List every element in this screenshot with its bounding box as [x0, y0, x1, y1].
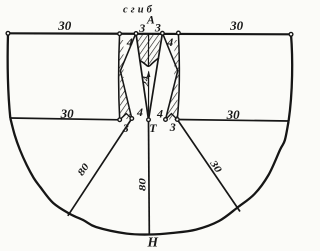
svg-text:4: 4 — [136, 105, 143, 119]
central dart hatched area — [137, 34, 160, 66]
corner circle top-right — [289, 32, 293, 36]
right waist line — [177, 120, 288, 122]
dimension arrowhead down — [147, 111, 150, 118]
dimension arrowhead up — [147, 71, 151, 78]
right diagonal line 30 — [177, 120, 240, 212]
right dart lower hatched triangle — [166, 72, 178, 120]
svg-text:24: 24 — [142, 76, 151, 88]
right side edge — [289, 34, 293, 121]
circle right dart bottom-left node — [164, 118, 168, 122]
svg-text:4: 4 — [156, 107, 163, 121]
central dart right edge — [149, 33, 163, 120]
right dart notch — [166, 114, 178, 120]
left waist line — [10, 118, 119, 120]
svg-text:30: 30 — [60, 106, 75, 121]
svg-text:4: 4 — [126, 35, 133, 49]
svg-text:3: 3 — [169, 120, 176, 134]
circle left dart top-right — [134, 32, 138, 36]
circle right dart bottom-right node — [176, 118, 180, 122]
svg-text:3: 3 — [138, 21, 145, 35]
left dart upper hatched band — [119, 40, 124, 78]
left dart notch — [120, 114, 132, 120]
top edge line — [8, 33, 291, 34]
left dart lower hatched triangle — [120, 72, 132, 120]
central dart axis line — [147, 34, 149, 67]
svg-text:30: 30 — [57, 18, 71, 33]
central dart hatch bottom V boundary — [139, 58, 159, 67]
left dart vertical edge A — [119, 34, 120, 120]
corner circle top-left — [6, 31, 10, 35]
circle left dart bottom-left — [118, 118, 122, 122]
svg-text:3: 3 — [122, 121, 129, 135]
circle left dart top-left — [118, 32, 122, 36]
circle right dart top-left — [161, 31, 165, 35]
center vertical line T-H — [148, 120, 151, 234]
circle left dart bottom-right node — [130, 117, 134, 121]
right dart inner edge B' — [163, 33, 178, 71]
svg-text:Н: Н — [147, 235, 159, 250]
svg-text:4: 4 — [166, 35, 173, 49]
right dart vertical edge A' — [177, 33, 179, 120]
svg-text:А: А — [146, 14, 155, 26]
circle point T — [147, 118, 151, 122]
left side edge — [8, 33, 11, 118]
svg-text:30: 30 — [229, 18, 244, 33]
right dart upper hatched band — [174, 40, 179, 78]
svg-text:Т: Т — [149, 121, 157, 135]
hem curve — [10, 118, 288, 235]
svg-text:3: 3 — [154, 20, 161, 34]
left dart inner edge B — [120, 34, 136, 72]
svg-text:30: 30 — [226, 107, 241, 122]
circle right dart top-right — [177, 31, 181, 35]
svg-text:80: 80 — [138, 178, 148, 191]
central dart left edge — [136, 34, 149, 120]
dimension arrow 24 line — [148, 72, 150, 118]
left dart lower edge C — [120, 71, 131, 119]
left diagonal line 80 — [68, 119, 132, 216]
right dart lower edge C' — [166, 71, 178, 120]
